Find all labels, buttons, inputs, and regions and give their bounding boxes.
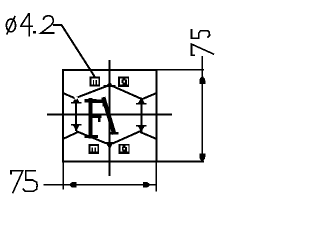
hole BR xyxy=(119,144,130,154)
hole TL xyxy=(90,77,101,87)
digit 5 xyxy=(192,30,210,38)
text 75 bottom xyxy=(11,171,37,193)
horizontal centerline xyxy=(48,114,171,116)
logo middle arm xyxy=(91,115,100,118)
right dim extension top xyxy=(157,69,204,71)
web line left-bottom to bottom node xyxy=(77,132,106,144)
right dim arrow bottom xyxy=(199,154,205,162)
digit 5 xyxy=(23,171,37,192)
bottom center node xyxy=(104,143,114,150)
bottom dim line xyxy=(45,184,157,186)
text 75 right rotated xyxy=(192,30,214,55)
web line right-top to top node xyxy=(114,87,141,99)
logo diagonal leg xyxy=(104,99,114,132)
web line left-top to top node xyxy=(77,87,106,98)
right dim line xyxy=(201,57,203,162)
bottom dim extension right xyxy=(155,162,157,191)
bottom dim arrow left xyxy=(69,182,77,188)
right dim arrow top xyxy=(199,76,205,84)
digit 2 xyxy=(41,16,54,33)
logo top arm xyxy=(91,100,105,103)
digit 7 xyxy=(192,44,214,55)
diameter symbol xyxy=(6,19,15,32)
square outline of frame xyxy=(63,70,156,161)
web line left-bottom edge xyxy=(64,133,77,139)
logo letter F xyxy=(86,99,117,136)
bottom dim arrow right xyxy=(143,182,151,188)
digit 7 xyxy=(11,171,23,193)
web line left-top edge xyxy=(64,93,77,99)
hole TR xyxy=(118,77,129,87)
decimal point xyxy=(33,31,36,34)
web line right-top edge xyxy=(141,93,156,99)
leader line to hole xyxy=(54,25,96,78)
digit 4 xyxy=(21,14,32,26)
left strut xyxy=(72,96,81,131)
bottom dim extension left xyxy=(62,162,64,189)
web line right-bottom edge xyxy=(141,133,156,139)
right strut xyxy=(137,97,146,132)
top center node xyxy=(104,81,114,86)
hole BL xyxy=(88,144,99,154)
text dia 4.2 callout xyxy=(6,14,53,36)
right dim extension bottom xyxy=(157,161,204,163)
vertical centerline xyxy=(109,61,111,175)
web line right-bottom to bottom node xyxy=(114,131,141,143)
